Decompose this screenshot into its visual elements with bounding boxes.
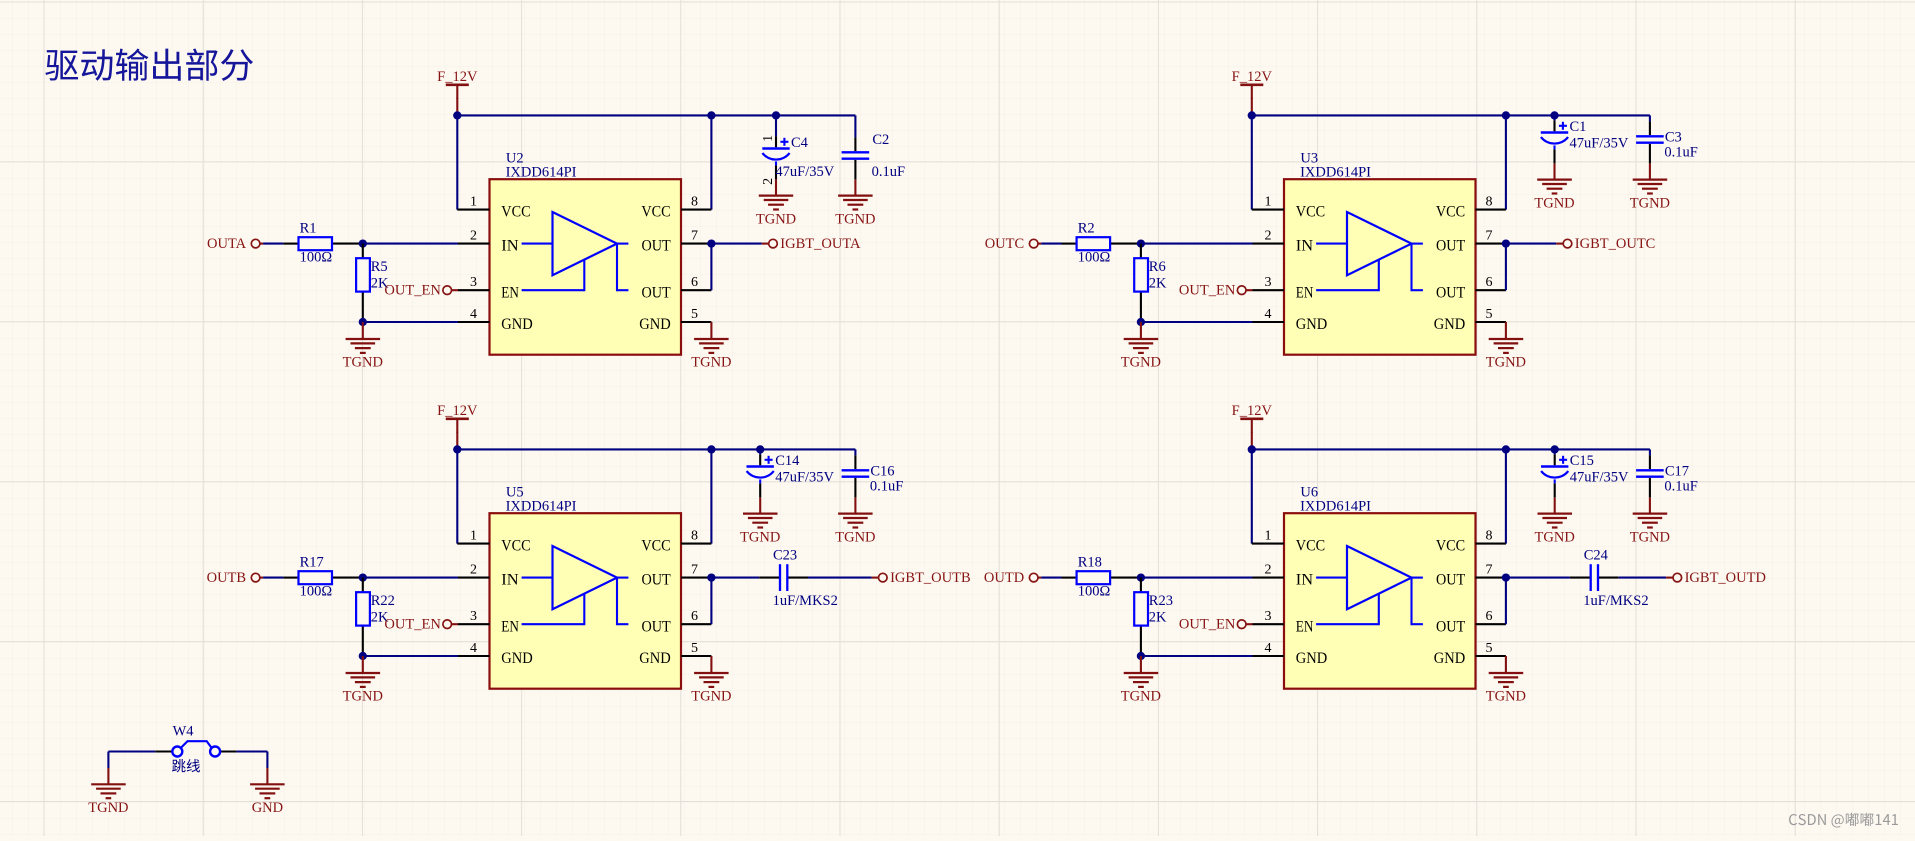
wire bbox=[263, 577, 283, 579]
svg-text:6: 6 bbox=[1486, 275, 1493, 290]
junction bbox=[1248, 445, 1256, 453]
svg-text:4: 4 bbox=[470, 307, 477, 322]
U3 pin 5 bbox=[1476, 307, 1506, 322]
wire bbox=[854, 115, 856, 137]
capacitor C2 0.1uF bbox=[842, 137, 870, 179]
wire F_12V stub bbox=[456, 432, 458, 450]
U2 pin 6 bbox=[681, 275, 711, 290]
resistor R5 bbox=[356, 244, 370, 322]
svg-text:TGND: TGND bbox=[1630, 195, 1670, 211]
wire bbox=[1619, 577, 1666, 579]
label jumper bbox=[172, 759, 200, 772]
svg-text:GND: GND bbox=[1434, 316, 1465, 333]
svg-text:TGND: TGND bbox=[1121, 689, 1161, 705]
U6 pin 8 bbox=[1476, 528, 1506, 543]
svg-text:8: 8 bbox=[691, 528, 698, 543]
ground stub bbox=[266, 768, 268, 784]
svg-text:3: 3 bbox=[470, 275, 477, 290]
C4 pin 1 bbox=[761, 135, 776, 142]
svg-text:F_12V: F_12V bbox=[437, 69, 478, 85]
svg-text:VCC: VCC bbox=[501, 204, 530, 221]
wire OUT bridge bbox=[710, 244, 712, 291]
wire bbox=[711, 243, 761, 245]
svg-text:R6: R6 bbox=[1149, 259, 1166, 275]
ground TGND bbox=[759, 196, 793, 210]
svg-text:5: 5 bbox=[1486, 307, 1493, 322]
wire VCC rail bbox=[457, 448, 855, 450]
svg-text:0.1uF: 0.1uF bbox=[872, 164, 905, 180]
junction bbox=[1551, 445, 1559, 453]
svg-text:5: 5 bbox=[691, 641, 698, 656]
svg-text:3: 3 bbox=[1265, 609, 1272, 624]
svg-text:7: 7 bbox=[691, 228, 698, 243]
svg-text:VCC: VCC bbox=[501, 538, 530, 555]
designator C1 bbox=[1570, 119, 1587, 135]
ground GND bbox=[250, 784, 285, 798]
ground stub bbox=[775, 179, 777, 195]
wire bbox=[1649, 115, 1651, 121]
wire bbox=[263, 243, 283, 245]
U5 pin 5 bbox=[681, 641, 711, 656]
designator U2 bbox=[506, 150, 524, 166]
U3 pin 1 bbox=[1252, 194, 1284, 209]
value 47uF/35V bbox=[775, 164, 834, 180]
svg-text:EN: EN bbox=[501, 284, 519, 301]
svg-text:TGND: TGND bbox=[835, 529, 875, 545]
designator R6 bbox=[1149, 259, 1166, 275]
svg-text:C15: C15 bbox=[1570, 453, 1594, 469]
wire to IN bbox=[363, 577, 458, 579]
value 1uF/MKS2 bbox=[1583, 593, 1648, 609]
junction bbox=[707, 445, 715, 453]
wire to pin8 bbox=[710, 449, 712, 543]
svg-text:IGBT_OUTA: IGBT_OUTA bbox=[780, 236, 861, 252]
svg-text:100Ω: 100Ω bbox=[1078, 583, 1111, 599]
U3 pin 2 bbox=[1253, 228, 1285, 243]
svg-text:OUT_EN: OUT_EN bbox=[384, 283, 441, 299]
ground TGND bbox=[1538, 514, 1573, 528]
U6 pin 5 bbox=[1476, 641, 1506, 656]
value IXDD614PI bbox=[1300, 165, 1371, 181]
ground TGND bbox=[1537, 180, 1572, 194]
wire bbox=[1506, 577, 1570, 579]
svg-text:OUT: OUT bbox=[1436, 618, 1465, 635]
junction bbox=[1137, 239, 1145, 247]
ground stub bbox=[710, 656, 712, 673]
svg-text:IXDD614PI: IXDD614PI bbox=[1300, 165, 1371, 181]
svg-text:OUT_EN: OUT_EN bbox=[1179, 617, 1236, 633]
svg-text:R5: R5 bbox=[371, 259, 388, 275]
svg-text:C3: C3 bbox=[1665, 129, 1682, 145]
IC U3 IXDD614PI bbox=[1284, 179, 1476, 355]
value 0.1uF bbox=[872, 164, 905, 180]
svg-text:6: 6 bbox=[1486, 609, 1493, 624]
designator C24 bbox=[1584, 547, 1609, 563]
designator R23 bbox=[1149, 593, 1173, 609]
value 0.1uF bbox=[1664, 144, 1697, 160]
svg-text:EN: EN bbox=[1296, 284, 1314, 301]
designator C4 bbox=[791, 135, 809, 151]
svg-text:F_12V: F_12V bbox=[1232, 403, 1273, 419]
designator C3 bbox=[1665, 129, 1682, 145]
svg-text:VCC: VCC bbox=[1296, 204, 1325, 221]
junction bbox=[359, 573, 367, 581]
svg-text:47uF/35V: 47uF/35V bbox=[775, 164, 834, 180]
svg-text:OUT: OUT bbox=[642, 238, 671, 255]
ground TGND bbox=[346, 339, 381, 353]
junction bbox=[1137, 573, 1145, 581]
svg-text:C23: C23 bbox=[773, 547, 797, 563]
U5 pin 3 bbox=[458, 609, 490, 624]
wire to GND pin bbox=[363, 321, 458, 323]
designator R17 bbox=[300, 554, 324, 570]
svg-text:IN: IN bbox=[1296, 238, 1314, 255]
value 47uF/35V bbox=[1570, 469, 1629, 485]
svg-text:C16: C16 bbox=[870, 463, 894, 479]
svg-text:R18: R18 bbox=[1078, 554, 1102, 570]
svg-text:VCC: VCC bbox=[1296, 538, 1325, 555]
svg-text:100Ω: 100Ω bbox=[300, 249, 333, 265]
power port F_12V bbox=[1232, 403, 1273, 433]
value 1uF/MKS2 bbox=[773, 593, 838, 609]
svg-text:GND: GND bbox=[1296, 316, 1327, 333]
U6 pin 4 bbox=[1253, 641, 1285, 656]
svg-text:OUTB: OUTB bbox=[207, 570, 246, 586]
wire OUT bridge bbox=[1505, 244, 1507, 291]
svg-text:OUT: OUT bbox=[642, 618, 671, 635]
svg-text:VCC: VCC bbox=[641, 204, 670, 221]
U2 pin 5 bbox=[681, 307, 711, 322]
svg-text:TGND: TGND bbox=[691, 355, 731, 371]
U2 pin 8 bbox=[681, 194, 711, 209]
svg-text:1: 1 bbox=[470, 528, 477, 543]
svg-text:GND: GND bbox=[501, 650, 532, 667]
junction bbox=[707, 573, 715, 581]
designator C16 bbox=[870, 463, 894, 479]
designator R22 bbox=[371, 593, 395, 609]
svg-text:100Ω: 100Ω bbox=[300, 583, 333, 599]
ground TGND bbox=[1124, 339, 1159, 353]
ground stub bbox=[710, 322, 712, 339]
wire to GND pin bbox=[1141, 321, 1253, 323]
power port F_12V bbox=[1232, 69, 1273, 99]
ground stub bbox=[1140, 322, 1142, 339]
ground TGND bbox=[694, 673, 729, 687]
wire OUT bridge bbox=[710, 578, 712, 625]
ground stub bbox=[1140, 656, 1142, 673]
svg-text:IXDD614PI: IXDD614PI bbox=[506, 165, 577, 181]
svg-text:IGBT_OUTD: IGBT_OUTD bbox=[1685, 570, 1766, 586]
svg-text:2: 2 bbox=[470, 562, 477, 577]
ground TGND bbox=[1489, 339, 1524, 353]
value 2K bbox=[371, 609, 389, 625]
U6 pin 3 bbox=[1253, 609, 1285, 624]
wire to pin8 bbox=[710, 115, 712, 209]
port IGBT_OUTD bbox=[1666, 570, 1766, 586]
svg-text:1uF/MKS2: 1uF/MKS2 bbox=[1583, 593, 1648, 609]
U6 pin 7 bbox=[1476, 562, 1506, 577]
junction bbox=[1502, 445, 1510, 453]
U5 pin 7 bbox=[681, 562, 711, 577]
port IGBT_OUTA bbox=[762, 236, 861, 252]
C4 pin 2 bbox=[761, 178, 776, 185]
designator C14 bbox=[775, 453, 800, 469]
value 2K bbox=[1149, 609, 1167, 625]
ground stub bbox=[1505, 656, 1507, 673]
svg-text:W4: W4 bbox=[173, 723, 195, 739]
svg-text:8: 8 bbox=[1486, 194, 1493, 209]
junction bbox=[359, 318, 367, 326]
svg-text:GND: GND bbox=[501, 316, 532, 333]
svg-text:GND: GND bbox=[1434, 650, 1465, 667]
value 100&#937; bbox=[300, 249, 333, 265]
svg-text:7: 7 bbox=[1486, 562, 1493, 577]
svg-text:IN: IN bbox=[501, 572, 519, 589]
wire to GND pin bbox=[363, 655, 458, 657]
svg-text:1: 1 bbox=[1265, 528, 1272, 543]
svg-text:TGND: TGND bbox=[1121, 355, 1161, 371]
svg-text:C17: C17 bbox=[1665, 463, 1689, 479]
value IXDD614PI bbox=[506, 165, 577, 181]
ground stub bbox=[1553, 163, 1555, 179]
wire VCC rail bbox=[457, 114, 855, 116]
svg-text:OUT: OUT bbox=[642, 284, 671, 301]
junction bbox=[359, 239, 367, 247]
svg-text:GND: GND bbox=[639, 316, 670, 333]
wire bbox=[108, 750, 155, 752]
value IXDD614PI bbox=[1300, 499, 1371, 515]
designator R1 bbox=[300, 220, 317, 236]
U3 pin 6 bbox=[1476, 275, 1506, 290]
svg-text:OUTA: OUTA bbox=[207, 236, 247, 252]
power port F_12V bbox=[437, 403, 478, 433]
junction bbox=[359, 652, 367, 660]
svg-text:100Ω: 100Ω bbox=[1078, 249, 1111, 265]
port OUTA bbox=[207, 236, 263, 252]
junction bbox=[1502, 573, 1510, 581]
svg-text:TGND: TGND bbox=[740, 529, 780, 545]
resistor R1 bbox=[283, 237, 362, 250]
svg-text:4: 4 bbox=[470, 641, 477, 656]
designator C23 bbox=[773, 547, 797, 563]
svg-text:C4: C4 bbox=[791, 135, 809, 151]
svg-text:TGND: TGND bbox=[88, 800, 128, 816]
svg-text:OUT: OUT bbox=[1436, 284, 1465, 301]
U3 pin 8 bbox=[1476, 194, 1506, 209]
wire to pin1 bbox=[1251, 115, 1253, 209]
svg-text:1: 1 bbox=[470, 194, 477, 209]
svg-text:8: 8 bbox=[691, 194, 698, 209]
svg-text:7: 7 bbox=[691, 562, 698, 577]
port IGBT_OUTB bbox=[872, 570, 971, 586]
wire to pin8 bbox=[1505, 115, 1507, 209]
svg-text:47uF/35V: 47uF/35V bbox=[1570, 469, 1629, 485]
ground TGND bbox=[1489, 673, 1524, 687]
ground stub bbox=[107, 768, 109, 784]
U5 pin 4 bbox=[458, 641, 490, 656]
ground TGND bbox=[838, 196, 873, 210]
svg-text:IN: IN bbox=[501, 238, 519, 255]
svg-text:2: 2 bbox=[1265, 562, 1272, 577]
wire bbox=[1554, 449, 1556, 454]
svg-text:4: 4 bbox=[1265, 641, 1272, 656]
designator W4 bbox=[173, 723, 195, 739]
wire VCC rail bbox=[1252, 448, 1650, 450]
wire bbox=[1506, 243, 1556, 245]
wire F_12V stub bbox=[1251, 98, 1253, 116]
capacitor C3 0.1uF bbox=[1636, 121, 1664, 163]
svg-text:TGND: TGND bbox=[1535, 529, 1575, 545]
svg-text:1: 1 bbox=[1265, 194, 1272, 209]
resistor R17 bbox=[283, 571, 362, 584]
svg-text:3: 3 bbox=[470, 609, 477, 624]
port IGBT_OUTC bbox=[1556, 236, 1655, 252]
wire bbox=[759, 449, 761, 454]
wire F_12V stub bbox=[1251, 432, 1253, 450]
wire to pin1 bbox=[456, 449, 458, 543]
resistor R18 bbox=[1062, 571, 1141, 584]
svg-text:TGND: TGND bbox=[343, 355, 383, 371]
wire bbox=[266, 752, 268, 769]
junction bbox=[756, 445, 764, 453]
svg-text:OUT: OUT bbox=[1436, 572, 1465, 589]
svg-text:0.1uF: 0.1uF bbox=[870, 478, 903, 494]
svg-text:GND: GND bbox=[252, 800, 283, 816]
svg-text:47uF/35V: 47uF/35V bbox=[775, 469, 834, 485]
wire to IN bbox=[1141, 577, 1253, 579]
svg-text:F_12V: F_12V bbox=[437, 403, 478, 419]
svg-text:TGND: TGND bbox=[1630, 529, 1670, 545]
designator C2 bbox=[872, 132, 889, 148]
wire OUT bridge bbox=[1505, 578, 1507, 625]
designator C17 bbox=[1665, 463, 1689, 479]
svg-text:2: 2 bbox=[470, 228, 477, 243]
svg-text:GND: GND bbox=[639, 650, 670, 667]
value 0.1uF bbox=[870, 478, 903, 494]
ground stub bbox=[1554, 497, 1556, 513]
svg-text:6: 6 bbox=[691, 275, 698, 290]
ground TGND bbox=[346, 673, 381, 687]
U5 pin 1 bbox=[457, 528, 489, 543]
svg-text:TGND: TGND bbox=[835, 211, 875, 227]
wire bbox=[1041, 243, 1061, 245]
capacitor C17 0.1uF bbox=[1636, 455, 1664, 497]
value 2K bbox=[371, 275, 389, 291]
U3 pin 7 bbox=[1476, 228, 1506, 243]
wire bbox=[808, 577, 872, 579]
watermark bbox=[1789, 813, 1898, 828]
wire bbox=[1649, 449, 1651, 455]
capacitor C15 47uF/35V bbox=[1541, 454, 1568, 497]
designator R5 bbox=[371, 259, 388, 275]
wire to GND pin bbox=[1141, 655, 1253, 657]
svg-text:2K: 2K bbox=[1149, 609, 1167, 625]
svg-text:OUT: OUT bbox=[1436, 238, 1465, 255]
capacitor C1 47uF/35V bbox=[1541, 120, 1568, 163]
svg-text:2: 2 bbox=[1265, 228, 1272, 243]
U6 pin 2 bbox=[1253, 562, 1285, 577]
svg-text:5: 5 bbox=[1486, 641, 1493, 656]
designator C15 bbox=[1570, 453, 1594, 469]
ground stub bbox=[1649, 163, 1651, 179]
svg-text:OUT_EN: OUT_EN bbox=[384, 617, 441, 633]
value 47uF/35V bbox=[1570, 135, 1629, 151]
schematic title bbox=[45, 48, 253, 80]
wire F_12V stub bbox=[456, 98, 458, 116]
svg-text:OUT: OUT bbox=[642, 572, 671, 589]
value 47uF/35V bbox=[775, 469, 834, 485]
svg-text:2K: 2K bbox=[1149, 275, 1167, 291]
svg-text:47uF/35V: 47uF/35V bbox=[1570, 135, 1629, 151]
value 100&#937; bbox=[1078, 583, 1111, 599]
power port F_12V bbox=[437, 69, 478, 99]
ground TGND bbox=[1633, 180, 1668, 194]
capacitor C14 47uF/35V bbox=[747, 454, 774, 497]
port OUTB bbox=[207, 570, 263, 586]
designator U5 bbox=[506, 484, 524, 500]
capacitor C24 1uF/MKS2 bbox=[1570, 564, 1619, 591]
ground stub bbox=[854, 179, 856, 195]
junction bbox=[453, 445, 461, 453]
resistor R6 bbox=[1134, 244, 1148, 322]
wire to IN bbox=[363, 243, 458, 245]
U2 pin 3 bbox=[458, 275, 490, 290]
svg-text:IN: IN bbox=[1296, 572, 1314, 589]
svg-text:C2: C2 bbox=[872, 132, 889, 148]
resistor R22 bbox=[356, 578, 370, 656]
svg-text:OUT_EN: OUT_EN bbox=[1179, 283, 1236, 299]
svg-text:C14: C14 bbox=[775, 453, 800, 469]
designator R18 bbox=[1078, 554, 1102, 570]
port OUT_EN bbox=[1179, 283, 1253, 299]
svg-text:TGND: TGND bbox=[343, 689, 383, 705]
svg-text:OUTC: OUTC bbox=[985, 236, 1024, 252]
U5 pin 8 bbox=[681, 528, 711, 543]
svg-text:TGND: TGND bbox=[1486, 689, 1526, 705]
svg-text:C1: C1 bbox=[1570, 119, 1587, 135]
value IXDD614PI bbox=[506, 499, 577, 515]
value 100&#937; bbox=[1078, 249, 1111, 265]
svg-text:F_12V: F_12V bbox=[1232, 69, 1273, 85]
port OUTC bbox=[985, 236, 1041, 252]
wire to pin8 bbox=[1505, 449, 1507, 543]
junction bbox=[707, 239, 715, 247]
svg-text:OUTD: OUTD bbox=[984, 570, 1024, 586]
designator U6 bbox=[1300, 484, 1318, 500]
resistor R2 bbox=[1062, 237, 1141, 250]
wire bbox=[854, 449, 856, 455]
ground stub bbox=[1505, 322, 1507, 339]
ground TGND bbox=[1124, 673, 1159, 687]
ground TGND bbox=[91, 784, 126, 798]
U3 pin 4 bbox=[1253, 307, 1285, 322]
junction bbox=[1137, 652, 1145, 660]
svg-text:6: 6 bbox=[691, 609, 698, 624]
svg-text:IGBT_OUTB: IGBT_OUTB bbox=[890, 570, 971, 586]
junction bbox=[772, 111, 780, 119]
ground TGND bbox=[1633, 514, 1668, 528]
svg-text:7: 7 bbox=[1486, 228, 1493, 243]
svg-text:TGND: TGND bbox=[756, 211, 796, 227]
svg-text:TGND: TGND bbox=[691, 689, 731, 705]
junction bbox=[1137, 318, 1145, 326]
junction bbox=[1550, 111, 1558, 119]
wire to IN bbox=[1141, 243, 1253, 245]
ground stub bbox=[759, 497, 761, 513]
svg-text:TGND: TGND bbox=[1486, 355, 1526, 371]
junction bbox=[1502, 239, 1510, 247]
IC U2 IXDD614PI bbox=[490, 179, 682, 355]
